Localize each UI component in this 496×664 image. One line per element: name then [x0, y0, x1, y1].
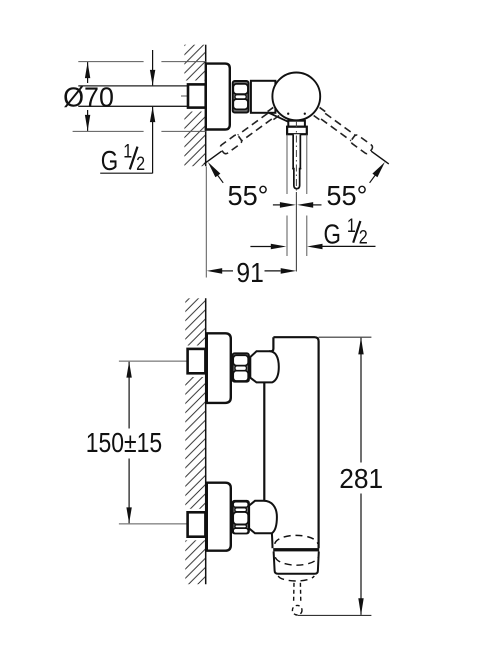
svg-text:55°: 55°	[227, 180, 268, 211]
svg-text:2: 2	[359, 226, 368, 248]
svg-text:91: 91	[236, 256, 263, 288]
svg-text:150±15: 150±15	[86, 428, 162, 459]
svg-text:G: G	[101, 146, 118, 177]
svg-text:G: G	[324, 219, 341, 250]
svg-text:1: 1	[123, 140, 132, 162]
svg-text:281: 281	[339, 462, 383, 494]
svg-text:Ø70: Ø70	[63, 81, 114, 113]
svg-text:1: 1	[347, 215, 356, 237]
svg-text:2: 2	[136, 153, 145, 175]
svg-text:55°: 55°	[326, 180, 367, 211]
